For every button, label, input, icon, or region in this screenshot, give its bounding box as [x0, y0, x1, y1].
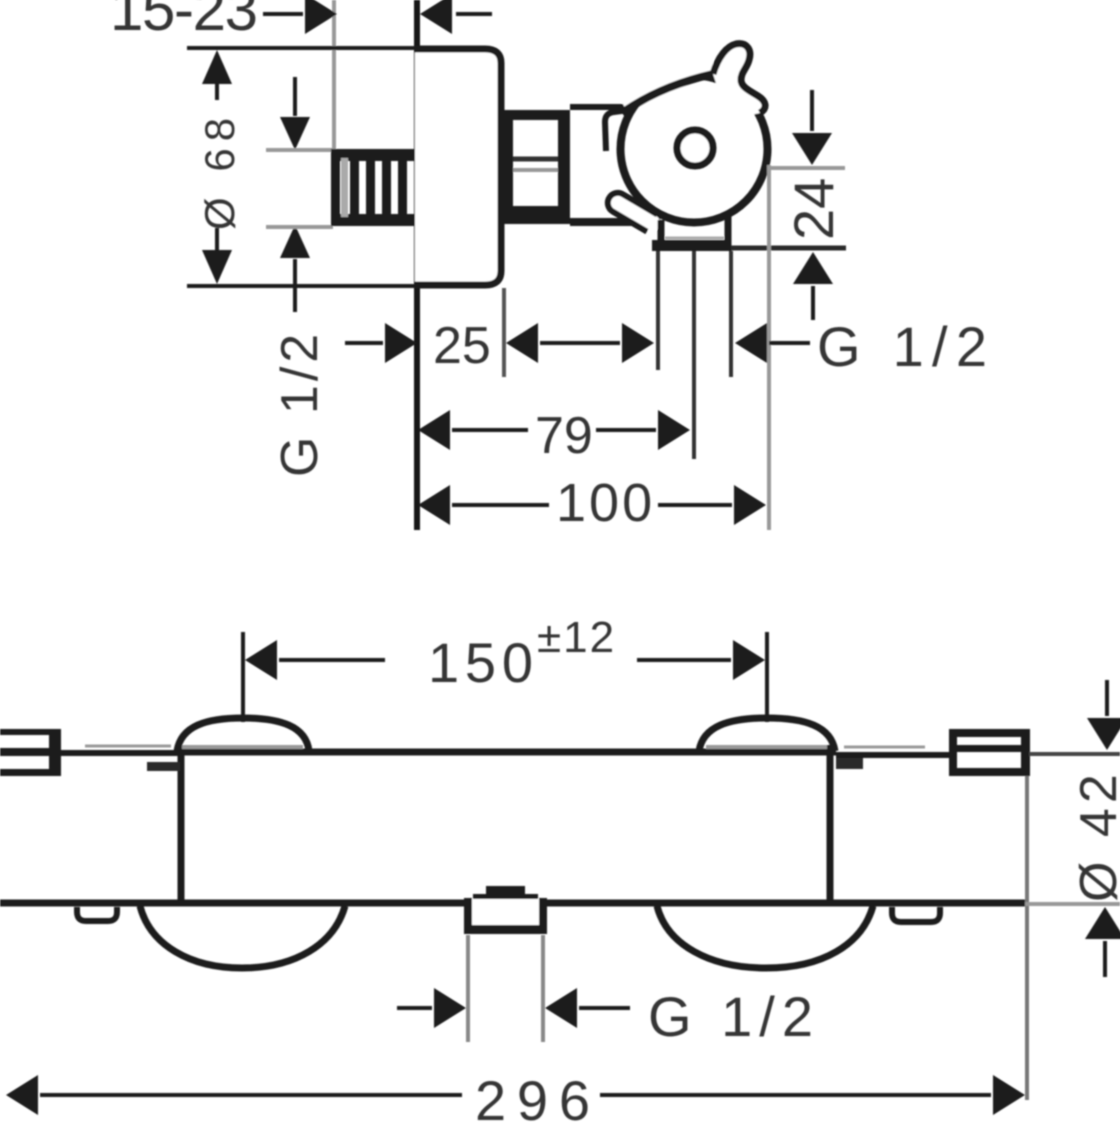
svg-text:79: 79: [535, 407, 593, 465]
svg-text:100: 100: [556, 473, 655, 533]
svg-text:150: 150: [428, 631, 533, 694]
svg-text:G 1/2: G 1/2: [648, 985, 813, 1048]
svg-text:296: 296: [475, 1069, 590, 1125]
svg-text:Ø 42: Ø 42: [1070, 769, 1120, 902]
svg-text:Ø 68: Ø 68: [196, 111, 243, 230]
svg-text:G 1/2: G 1/2: [271, 330, 329, 477]
svg-text:25: 25: [433, 317, 491, 375]
svg-text:24: 24: [782, 178, 845, 240]
svg-text:±12: ±12: [537, 613, 616, 662]
svg-text:15-23: 15-23: [110, 0, 258, 43]
svg-text:G 1/2: G 1/2: [817, 315, 987, 378]
